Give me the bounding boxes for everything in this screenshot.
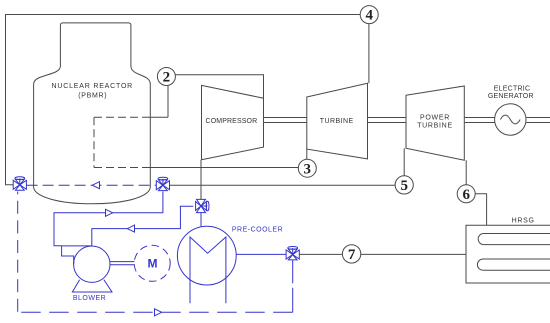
- svg-text:4: 4: [365, 8, 373, 24]
- svg-text:2: 2: [163, 70, 171, 86]
- svg-text:GENERATOR: GENERATOR: [488, 93, 534, 100]
- svg-text:(PBMR): (PBMR): [78, 93, 107, 100]
- svg-text:COMPRESSOR: COMPRESSOR: [206, 118, 258, 125]
- svg-text:M: M: [148, 257, 158, 271]
- svg-text:5: 5: [400, 178, 408, 194]
- svg-text:PRE-COOLER: PRE-COOLER: [232, 227, 283, 234]
- svg-text:ELECTRIC: ELECTRIC: [494, 86, 531, 93]
- svg-text:NUCLEAR REACTOR: NUCLEAR REACTOR: [52, 83, 134, 90]
- svg-text:BLOWER: BLOWER: [73, 295, 106, 302]
- svg-text:TURBINE: TURBINE: [417, 123, 453, 130]
- svg-text:TURBINE: TURBINE: [320, 118, 354, 125]
- svg-text:HRSG: HRSG: [512, 218, 535, 225]
- svg-text:7: 7: [348, 247, 356, 263]
- svg-text:POWER: POWER: [420, 115, 450, 122]
- svg-text:6: 6: [462, 187, 470, 203]
- svg-text:3: 3: [304, 161, 312, 177]
